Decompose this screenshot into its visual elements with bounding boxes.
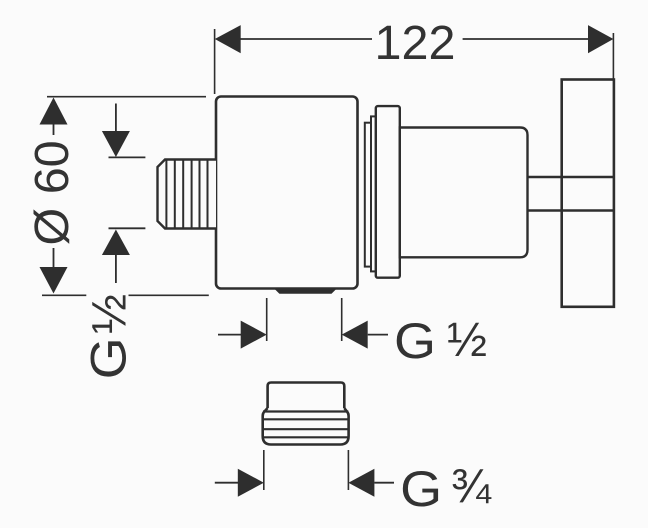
adapter thread line 1 — [263, 418, 349, 420]
handle — [562, 80, 614, 307]
dim 122 extension right — [612, 33, 614, 79]
cylinder — [400, 128, 528, 258]
dim 122 arrow left — [215, 25, 241, 53]
adapter thread line 3 — [264, 436, 348, 438]
dim G34 ext right — [347, 450, 349, 490]
dim D60 line top seg — [53, 125, 55, 136]
dim G12-out arrow right — [241, 321, 267, 349]
stem lines — [528, 177, 614, 211]
dim D60 arrow up — [40, 98, 68, 125]
adapter thread line 2 — [263, 428, 349, 430]
svg-text:G: G — [394, 313, 436, 369]
dim D60 arrow down — [40, 267, 68, 294]
adapter top rect — [268, 383, 345, 412]
svg-text:¾: ¾ — [451, 460, 492, 513]
dim G12-out line right — [368, 334, 388, 336]
dim G34 arrow left — [348, 469, 374, 497]
adapter junction line — [263, 410, 348, 412]
dim G34 arrow right — [238, 469, 264, 497]
dim 122 line left — [238, 38, 372, 40]
dim G12-left line below — [115, 255, 117, 283]
dim D60 line bottom seg — [53, 248, 55, 268]
dim G12-out ext right — [341, 298, 343, 341]
threaded nipple — [158, 160, 217, 229]
nipple thread lines — [166, 161, 207, 228]
flange plate — [376, 106, 400, 278]
dim G12-left tick top — [109, 156, 146, 158]
ring large — [371, 116, 376, 271]
dim G12-out ext left — [266, 298, 268, 341]
main body — [216, 97, 358, 289]
dim G12-left arrow up — [102, 230, 130, 256]
dim D60 ext top — [47, 96, 206, 98]
label G 1/2 rotated — [81, 294, 137, 379]
dim G34 line right — [374, 482, 394, 484]
dim G34 ext left — [263, 450, 265, 490]
dim G12-left line top — [115, 104, 117, 133]
svg-text:122: 122 — [375, 16, 456, 70]
svg-text:½: ½ — [447, 314, 487, 367]
ring small — [365, 123, 371, 267]
dim 122 extension left — [214, 29, 216, 94]
outlet bar — [275, 289, 337, 294]
dim 122 line right — [463, 38, 590, 40]
dim 122 arrow right — [588, 25, 613, 53]
adapter threaded part — [263, 408, 349, 445]
dim G12-out arrow left — [342, 321, 368, 349]
svg-text:½: ½ — [84, 294, 137, 334]
dim D60 ext bottom seg2 — [129, 294, 209, 296]
dim G34 line left — [215, 482, 240, 484]
dim G12-left tick bottom — [109, 227, 146, 229]
svg-text:Ø 60: Ø 60 — [25, 140, 79, 245]
dim G12-left arrow down — [102, 131, 130, 157]
dim D60 ext bottom seg1 — [42, 294, 86, 296]
dim G12-out line left — [218, 334, 243, 336]
svg-text:G: G — [400, 461, 442, 517]
svg-text:G: G — [81, 337, 137, 379]
